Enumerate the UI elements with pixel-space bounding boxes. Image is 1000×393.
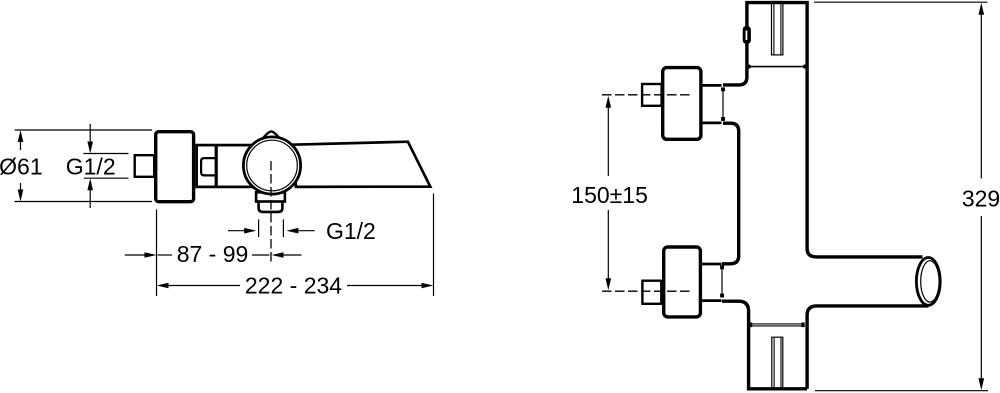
svg-text:222 - 234: 222 - 234 xyxy=(245,273,342,299)
svg-text:G1/2: G1/2 xyxy=(326,218,376,244)
svg-text:Ø61: Ø61 xyxy=(0,154,43,180)
svg-text:G1/2: G1/2 xyxy=(66,153,116,179)
svg-text:87 - 99: 87 - 99 xyxy=(177,241,249,267)
svg-text:150±15: 150±15 xyxy=(571,182,648,208)
svg-text:329: 329 xyxy=(962,185,1000,211)
